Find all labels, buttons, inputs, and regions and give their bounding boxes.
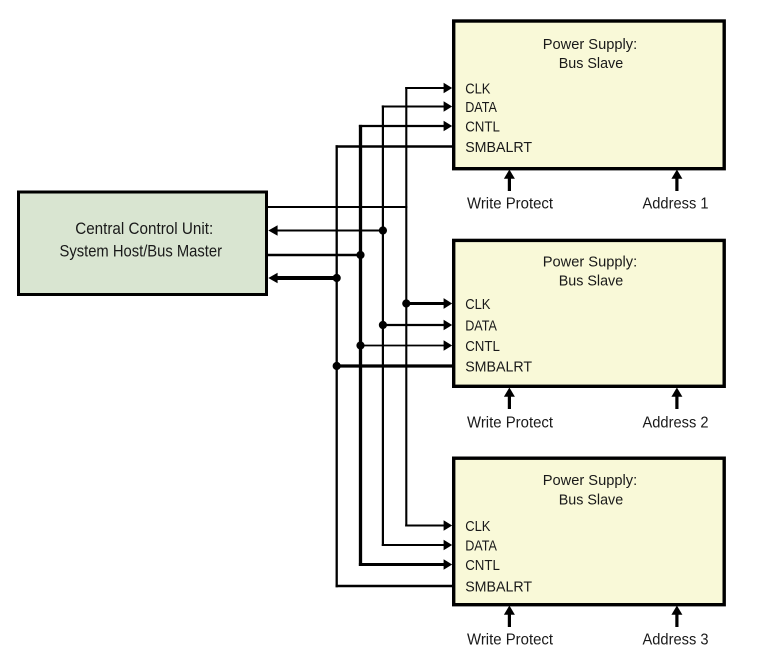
svg-text:Power Supply:: Power Supply: — [543, 472, 638, 489]
svg-text:Address 2: Address 2 — [643, 415, 709, 432]
svg-text:DATA: DATA — [465, 317, 497, 334]
svg-text:Bus Slave: Bus Slave — [559, 55, 624, 72]
svg-text:Bus Slave: Bus Slave — [559, 273, 624, 290]
svg-text:CLK: CLK — [465, 518, 490, 535]
svg-text:CNTL: CNTL — [465, 118, 500, 135]
svg-text:SMBALRT: SMBALRT — [465, 578, 532, 595]
svg-text:System Host/Bus Master: System Host/Bus Master — [60, 242, 223, 261]
svg-text:Write Protect: Write Protect — [467, 196, 554, 213]
svg-text:Write Protect: Write Protect — [467, 632, 554, 649]
svg-text:SMBALRT: SMBALRT — [465, 139, 532, 156]
svg-text:CNTL: CNTL — [465, 338, 500, 355]
svg-text:Central Control Unit:: Central Control Unit: — [75, 219, 213, 238]
svg-text:CNTL: CNTL — [465, 557, 500, 574]
svg-text:Power Supply:: Power Supply: — [543, 254, 638, 271]
svg-text:CLK: CLK — [465, 296, 490, 313]
svg-text:DATA: DATA — [465, 537, 497, 554]
svg-text:Power Supply:: Power Supply: — [543, 36, 638, 53]
svg-text:SMBALRT: SMBALRT — [465, 358, 532, 375]
svg-text:Write Protect: Write Protect — [467, 415, 554, 432]
svg-text:DATA: DATA — [465, 99, 497, 116]
svg-text:CLK: CLK — [465, 80, 490, 97]
svg-text:Address 3: Address 3 — [643, 632, 709, 649]
svg-text:Address 1: Address 1 — [643, 196, 709, 213]
svg-text:Bus Slave: Bus Slave — [559, 492, 624, 509]
